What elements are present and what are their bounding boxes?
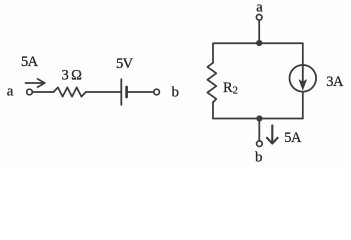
- node a (left circuit) terminal circle: [27, 89, 33, 95]
- svg-text:b: b: [172, 84, 180, 100]
- svg-text:5A: 5A: [21, 54, 39, 70]
- svg-text:5A: 5A: [284, 130, 302, 146]
- current direction arrow 5A (left circuit): [26, 79, 45, 87]
- wire from current source to bottom rail: [302, 92, 304, 119]
- output current arrow 5A (down arrow): [267, 125, 278, 143]
- node a (right circuit) terminal circle: [256, 14, 262, 20]
- resistor R 3ohm (zigzag): [54, 87, 86, 96]
- node b (left circuit) terminal circle: [154, 89, 160, 95]
- svg-text:R2: R2: [223, 80, 238, 97]
- svg-text:3A: 3A: [326, 74, 344, 90]
- wire from R2 to bottom rail: [212, 102, 214, 118]
- wire stub from bottom rail down to node b: [258, 120, 260, 141]
- battery V1 short plate: [125, 87, 128, 97]
- resistor R2 (vertical zigzag): [207, 63, 216, 103]
- battery V1 long plate: [120, 79, 122, 105]
- junction dot (bottom rail): [256, 115, 262, 121]
- wire from battery to node b: [128, 91, 154, 93]
- svg-text:b: b: [255, 149, 263, 165]
- current source arrowhead: [299, 80, 306, 90]
- svg-text:5V: 5V: [116, 56, 134, 72]
- junction dot (top rail): [256, 40, 262, 46]
- node b (right circuit) terminal circle: [257, 141, 263, 147]
- current source I1 circle: [290, 65, 317, 92]
- wire from node a to resistor: [32, 91, 53, 93]
- wire stub from node a down to top rail: [258, 20, 260, 42]
- top rail wire with corners: [213, 43, 303, 64]
- bottom rail wire with corners: [213, 118, 303, 120]
- svg-text:3 Ω: 3 Ω: [62, 67, 83, 83]
- svg-text:a: a: [256, 0, 263, 16]
- current source arrow shaft: [302, 64, 304, 86]
- svg-text:a: a: [7, 83, 14, 99]
- wire from resistor to battery: [86, 91, 121, 93]
